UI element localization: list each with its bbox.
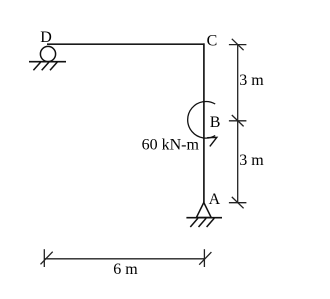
pin support at A: ground line: [186, 217, 222, 219]
svg-text:3 m: 3 m: [239, 152, 264, 169]
bottom dimension line (horizontal): [44, 258, 204, 260]
dimension label 3 m (upper): [239, 72, 264, 89]
node label D: [40, 29, 52, 46]
member CA (vertical column): [203, 43, 205, 202]
pin support at A: triangle: [196, 203, 211, 218]
roller support at D: hatching: [33, 62, 57, 71]
svg-text:3 m: 3 m: [239, 72, 264, 89]
roller support at D: circle: [40, 46, 55, 61]
svg-text:D: D: [40, 29, 52, 46]
member DC (horizontal beam): [47, 43, 205, 45]
roller support at D: ground line: [29, 61, 66, 63]
moment value label 60 kN-m: [142, 137, 200, 154]
dimension label 3 m (lower): [239, 152, 264, 169]
svg-text:B: B: [210, 114, 221, 131]
applied moment arc at B (60 kN-m): [188, 102, 216, 139]
node label C: [207, 33, 218, 50]
dimension tick at C level: [229, 39, 247, 50]
node label A: [209, 191, 221, 208]
dimension label 6 m: [113, 261, 138, 278]
svg-text:60 kN-m: 60 kN-m: [142, 137, 200, 154]
dimension tick at right end: [199, 249, 211, 267]
svg-text:C: C: [207, 33, 218, 50]
pin support at A: hatching: [190, 218, 214, 227]
right dimension line (vertical): [237, 45, 239, 203]
svg-text:6 m: 6 m: [113, 261, 138, 278]
moment arrowhead at B: [207, 137, 217, 146]
dimension tick at B level: [229, 115, 247, 126]
dimension tick at left end: [41, 249, 53, 267]
svg-text:A: A: [209, 191, 221, 208]
node label B: [210, 114, 221, 131]
dimension tick at A level: [229, 197, 247, 208]
